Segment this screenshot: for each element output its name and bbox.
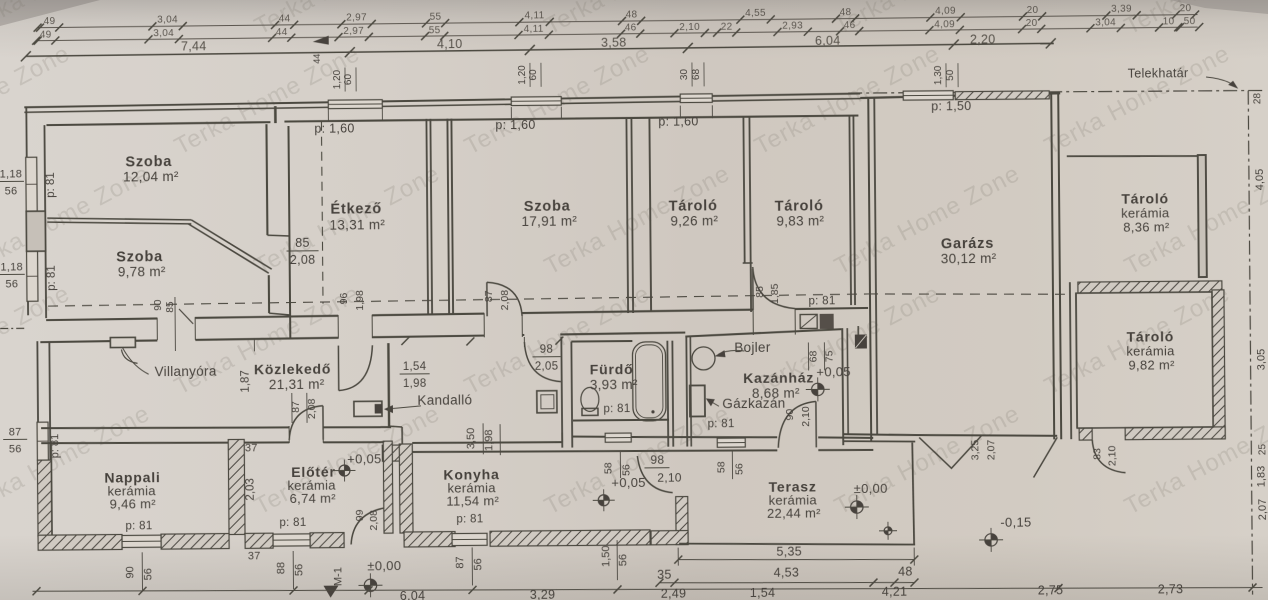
svg-text:56: 56	[617, 554, 629, 566]
svg-text:Kazánház: Kazánház	[743, 369, 814, 386]
svg-text:68: 68	[691, 68, 702, 80]
svg-text:30,12 m²: 30,12 m²	[941, 251, 997, 266]
svg-text:2,08: 2,08	[368, 510, 380, 531]
svg-text:5,35: 5,35	[776, 545, 802, 559]
svg-text:Villanyóra: Villanyóra	[155, 364, 217, 380]
svg-text:p: 81: p: 81	[279, 517, 306, 529]
svg-text:2,07: 2,07	[985, 439, 997, 460]
svg-text:2,08: 2,08	[290, 253, 316, 267]
svg-text:9,46 m²: 9,46 m²	[110, 496, 157, 511]
svg-text:Szoba: Szoba	[524, 199, 571, 215]
svg-text:44: 44	[276, 27, 288, 38]
svg-text:25: 25	[1257, 443, 1268, 455]
svg-text:56: 56	[5, 185, 18, 197]
svg-text:2,73: 2,73	[1158, 582, 1184, 596]
svg-text:p: 1,60: p: 1,60	[658, 114, 698, 128]
svg-text:6,04: 6,04	[815, 34, 841, 48]
svg-text:2,97: 2,97	[343, 26, 364, 37]
svg-text:7,44: 7,44	[181, 39, 207, 53]
svg-text:22: 22	[721, 22, 733, 33]
svg-text:58: 58	[602, 462, 614, 474]
svg-text:p: 1,60: p: 1,60	[495, 118, 535, 132]
svg-text:1,85: 1,85	[769, 283, 781, 304]
svg-text:83: 83	[1091, 448, 1103, 460]
svg-text:Telekhatár: Telekhatár	[1128, 66, 1189, 81]
svg-text:p: 81: p: 81	[707, 418, 734, 430]
svg-text:3,04: 3,04	[157, 15, 178, 26]
svg-text:+0,05: +0,05	[347, 451, 382, 466]
svg-text:98: 98	[650, 453, 664, 467]
svg-text:3,58: 3,58	[601, 36, 627, 50]
svg-text:2,08: 2,08	[499, 290, 511, 311]
svg-text:2,93: 2,93	[782, 21, 803, 32]
svg-text:4,21: 4,21	[882, 585, 908, 599]
svg-text:56: 56	[733, 463, 745, 475]
svg-text:6,74 m²: 6,74 m²	[290, 491, 337, 506]
svg-text:1,54: 1,54	[403, 361, 427, 373]
svg-text:2,10: 2,10	[1106, 445, 1118, 466]
svg-text:11,54 m²: 11,54 m²	[446, 493, 499, 508]
svg-text:85: 85	[295, 236, 310, 250]
svg-text:±0,00: ±0,00	[367, 558, 401, 573]
svg-text:Bojler: Bojler	[734, 340, 771, 355]
svg-text:98: 98	[540, 344, 554, 356]
svg-text:35: 35	[657, 568, 672, 582]
svg-text:2,75: 2,75	[1038, 583, 1064, 597]
svg-text:M-1: M-1	[332, 567, 344, 586]
svg-text:1,98: 1,98	[483, 430, 495, 452]
svg-text:48: 48	[840, 7, 852, 18]
svg-text:48: 48	[898, 565, 913, 579]
svg-text:20: 20	[1027, 5, 1039, 16]
svg-text:90: 90	[124, 566, 136, 578]
svg-text:49: 49	[44, 16, 56, 27]
svg-text:3,39: 3,39	[1111, 4, 1132, 15]
svg-text:4,09: 4,09	[935, 6, 956, 17]
svg-text:9,82 m²: 9,82 m²	[1128, 357, 1175, 372]
svg-text:6,04: 6,04	[400, 589, 426, 600]
svg-text:85: 85	[165, 301, 176, 313]
svg-text:Szoba: Szoba	[116, 249, 163, 265]
svg-text:1,50: 1,50	[600, 545, 612, 567]
svg-text:3,25: 3,25	[969, 440, 981, 461]
svg-text:p: 81: p: 81	[125, 520, 152, 532]
svg-text:2,49: 2,49	[661, 587, 687, 600]
svg-text:p: 81: p: 81	[46, 265, 58, 291]
svg-text:8,68 m²: 8,68 m²	[752, 386, 800, 401]
svg-text:2,10: 2,10	[800, 406, 812, 427]
svg-text:p: 1,60: p: 1,60	[314, 121, 354, 135]
svg-text:37: 37	[245, 442, 258, 454]
svg-text:Szoba: Szoba	[125, 154, 172, 170]
svg-text:90: 90	[784, 409, 796, 421]
svg-text:p: 81: p: 81	[456, 513, 483, 525]
svg-text:1,83: 1,83	[1255, 466, 1267, 488]
svg-text:1,20: 1,20	[517, 65, 528, 85]
svg-text:22,44 m²: 22,44 m²	[767, 505, 821, 520]
svg-text:9,83 m²: 9,83 m²	[776, 213, 824, 228]
svg-text:13,31 m²: 13,31 m²	[329, 217, 385, 232]
svg-text:3,29: 3,29	[530, 588, 556, 600]
svg-text:1,87: 1,87	[240, 370, 252, 392]
svg-text:1,18: 1,18	[0, 261, 23, 273]
svg-text:Tároló: Tároló	[775, 198, 824, 214]
svg-text:46: 46	[625, 23, 637, 34]
svg-text:p: 81: p: 81	[49, 434, 61, 459]
svg-text:56: 56	[5, 278, 18, 290]
svg-text:96: 96	[338, 292, 350, 304]
svg-text:56: 56	[142, 568, 154, 580]
svg-text:75: 75	[823, 350, 835, 362]
svg-text:Közlekedő: Közlekedő	[254, 361, 331, 378]
svg-text:Tároló: Tároló	[669, 198, 718, 214]
svg-text:49: 49	[40, 30, 52, 41]
svg-text:87: 87	[454, 556, 466, 568]
svg-text:87: 87	[9, 426, 22, 438]
svg-text:1,54: 1,54	[750, 586, 776, 600]
svg-text:4,05: 4,05	[1254, 169, 1266, 191]
svg-text:+0,05: +0,05	[611, 475, 646, 490]
svg-text:37: 37	[248, 550, 261, 562]
svg-text:p: 81: p: 81	[45, 172, 57, 198]
svg-text:12,04 m²: 12,04 m²	[123, 169, 179, 184]
svg-text:2,07: 2,07	[1257, 499, 1268, 521]
svg-text:58: 58	[715, 461, 727, 473]
svg-text:28: 28	[1252, 93, 1263, 105]
svg-text:21,31 m²: 21,31 m²	[269, 377, 325, 392]
svg-text:2,10: 2,10	[679, 22, 700, 33]
svg-text:Tároló: Tároló	[1126, 328, 1174, 344]
svg-text:3,05: 3,05	[1255, 349, 1267, 371]
svg-text:55: 55	[429, 25, 441, 36]
svg-text:4,10: 4,10	[437, 37, 463, 51]
svg-text:4,11: 4,11	[525, 10, 545, 21]
svg-text:3,04: 3,04	[153, 28, 174, 39]
svg-text:55: 55	[430, 12, 442, 23]
svg-text:10: 10	[1163, 16, 1175, 27]
svg-text:p: 1,50: p: 1,50	[931, 99, 971, 113]
svg-text:1,30: 1,30	[933, 65, 944, 85]
svg-text:-0,15: -0,15	[1000, 515, 1031, 530]
svg-text:17,91 m²: 17,91 m²	[521, 213, 577, 228]
svg-text:8,36 m²: 8,36 m²	[1123, 219, 1170, 234]
svg-text:p: 81: p: 81	[808, 295, 835, 307]
svg-text:56: 56	[9, 443, 22, 455]
svg-text:56: 56	[472, 558, 484, 570]
svg-text:±0,00: ±0,00	[854, 481, 888, 496]
svg-text:2,03: 2,03	[245, 478, 257, 500]
svg-text:9,26 m²: 9,26 m²	[670, 213, 718, 228]
svg-text:48: 48	[626, 9, 638, 20]
svg-text:56: 56	[293, 564, 305, 576]
svg-text:4,09: 4,09	[934, 19, 955, 30]
svg-text:4,55: 4,55	[745, 8, 766, 19]
svg-text:2,20: 2,20	[970, 32, 996, 46]
svg-text:99: 99	[354, 509, 366, 521]
svg-text:1,18: 1,18	[0, 168, 22, 180]
svg-text:9,78 m²: 9,78 m²	[118, 264, 166, 279]
svg-text:20: 20	[1180, 3, 1192, 14]
svg-text:2,10: 2,10	[657, 471, 682, 485]
svg-text:88: 88	[275, 562, 287, 574]
svg-text:+0,05: +0,05	[816, 364, 851, 379]
svg-text:4,11: 4,11	[524, 24, 544, 35]
svg-text:44: 44	[312, 54, 322, 64]
svg-text:Garázs: Garázs	[941, 236, 994, 252]
svg-text:1,98: 1,98	[403, 378, 427, 390]
svg-text:3,50: 3,50	[465, 428, 477, 450]
svg-text:1,20: 1,20	[332, 69, 343, 89]
svg-text:3,04: 3,04	[1095, 17, 1116, 28]
svg-text:2,05: 2,05	[535, 361, 559, 373]
svg-text:20: 20	[1026, 18, 1038, 29]
svg-text:68: 68	[807, 350, 819, 362]
svg-text:44: 44	[279, 13, 291, 24]
svg-text:Fürdő: Fürdő	[590, 361, 634, 377]
svg-text:50: 50	[945, 69, 956, 81]
svg-text:30: 30	[679, 69, 690, 81]
svg-text:Étkező: Étkező	[330, 200, 382, 217]
svg-text:4,53: 4,53	[774, 566, 800, 580]
svg-text:1,98: 1,98	[354, 290, 366, 311]
svg-text:Tároló: Tároló	[1121, 190, 1169, 206]
svg-text:46: 46	[844, 20, 856, 31]
svg-text:3,93 m²: 3,93 m²	[590, 377, 638, 392]
svg-text:87: 87	[483, 290, 495, 302]
svg-text:Kandalló: Kandalló	[417, 392, 472, 407]
svg-text:p: 81: p: 81	[603, 403, 630, 415]
svg-text:50: 50	[1184, 16, 1196, 27]
svg-text:2,97: 2,97	[346, 12, 367, 23]
